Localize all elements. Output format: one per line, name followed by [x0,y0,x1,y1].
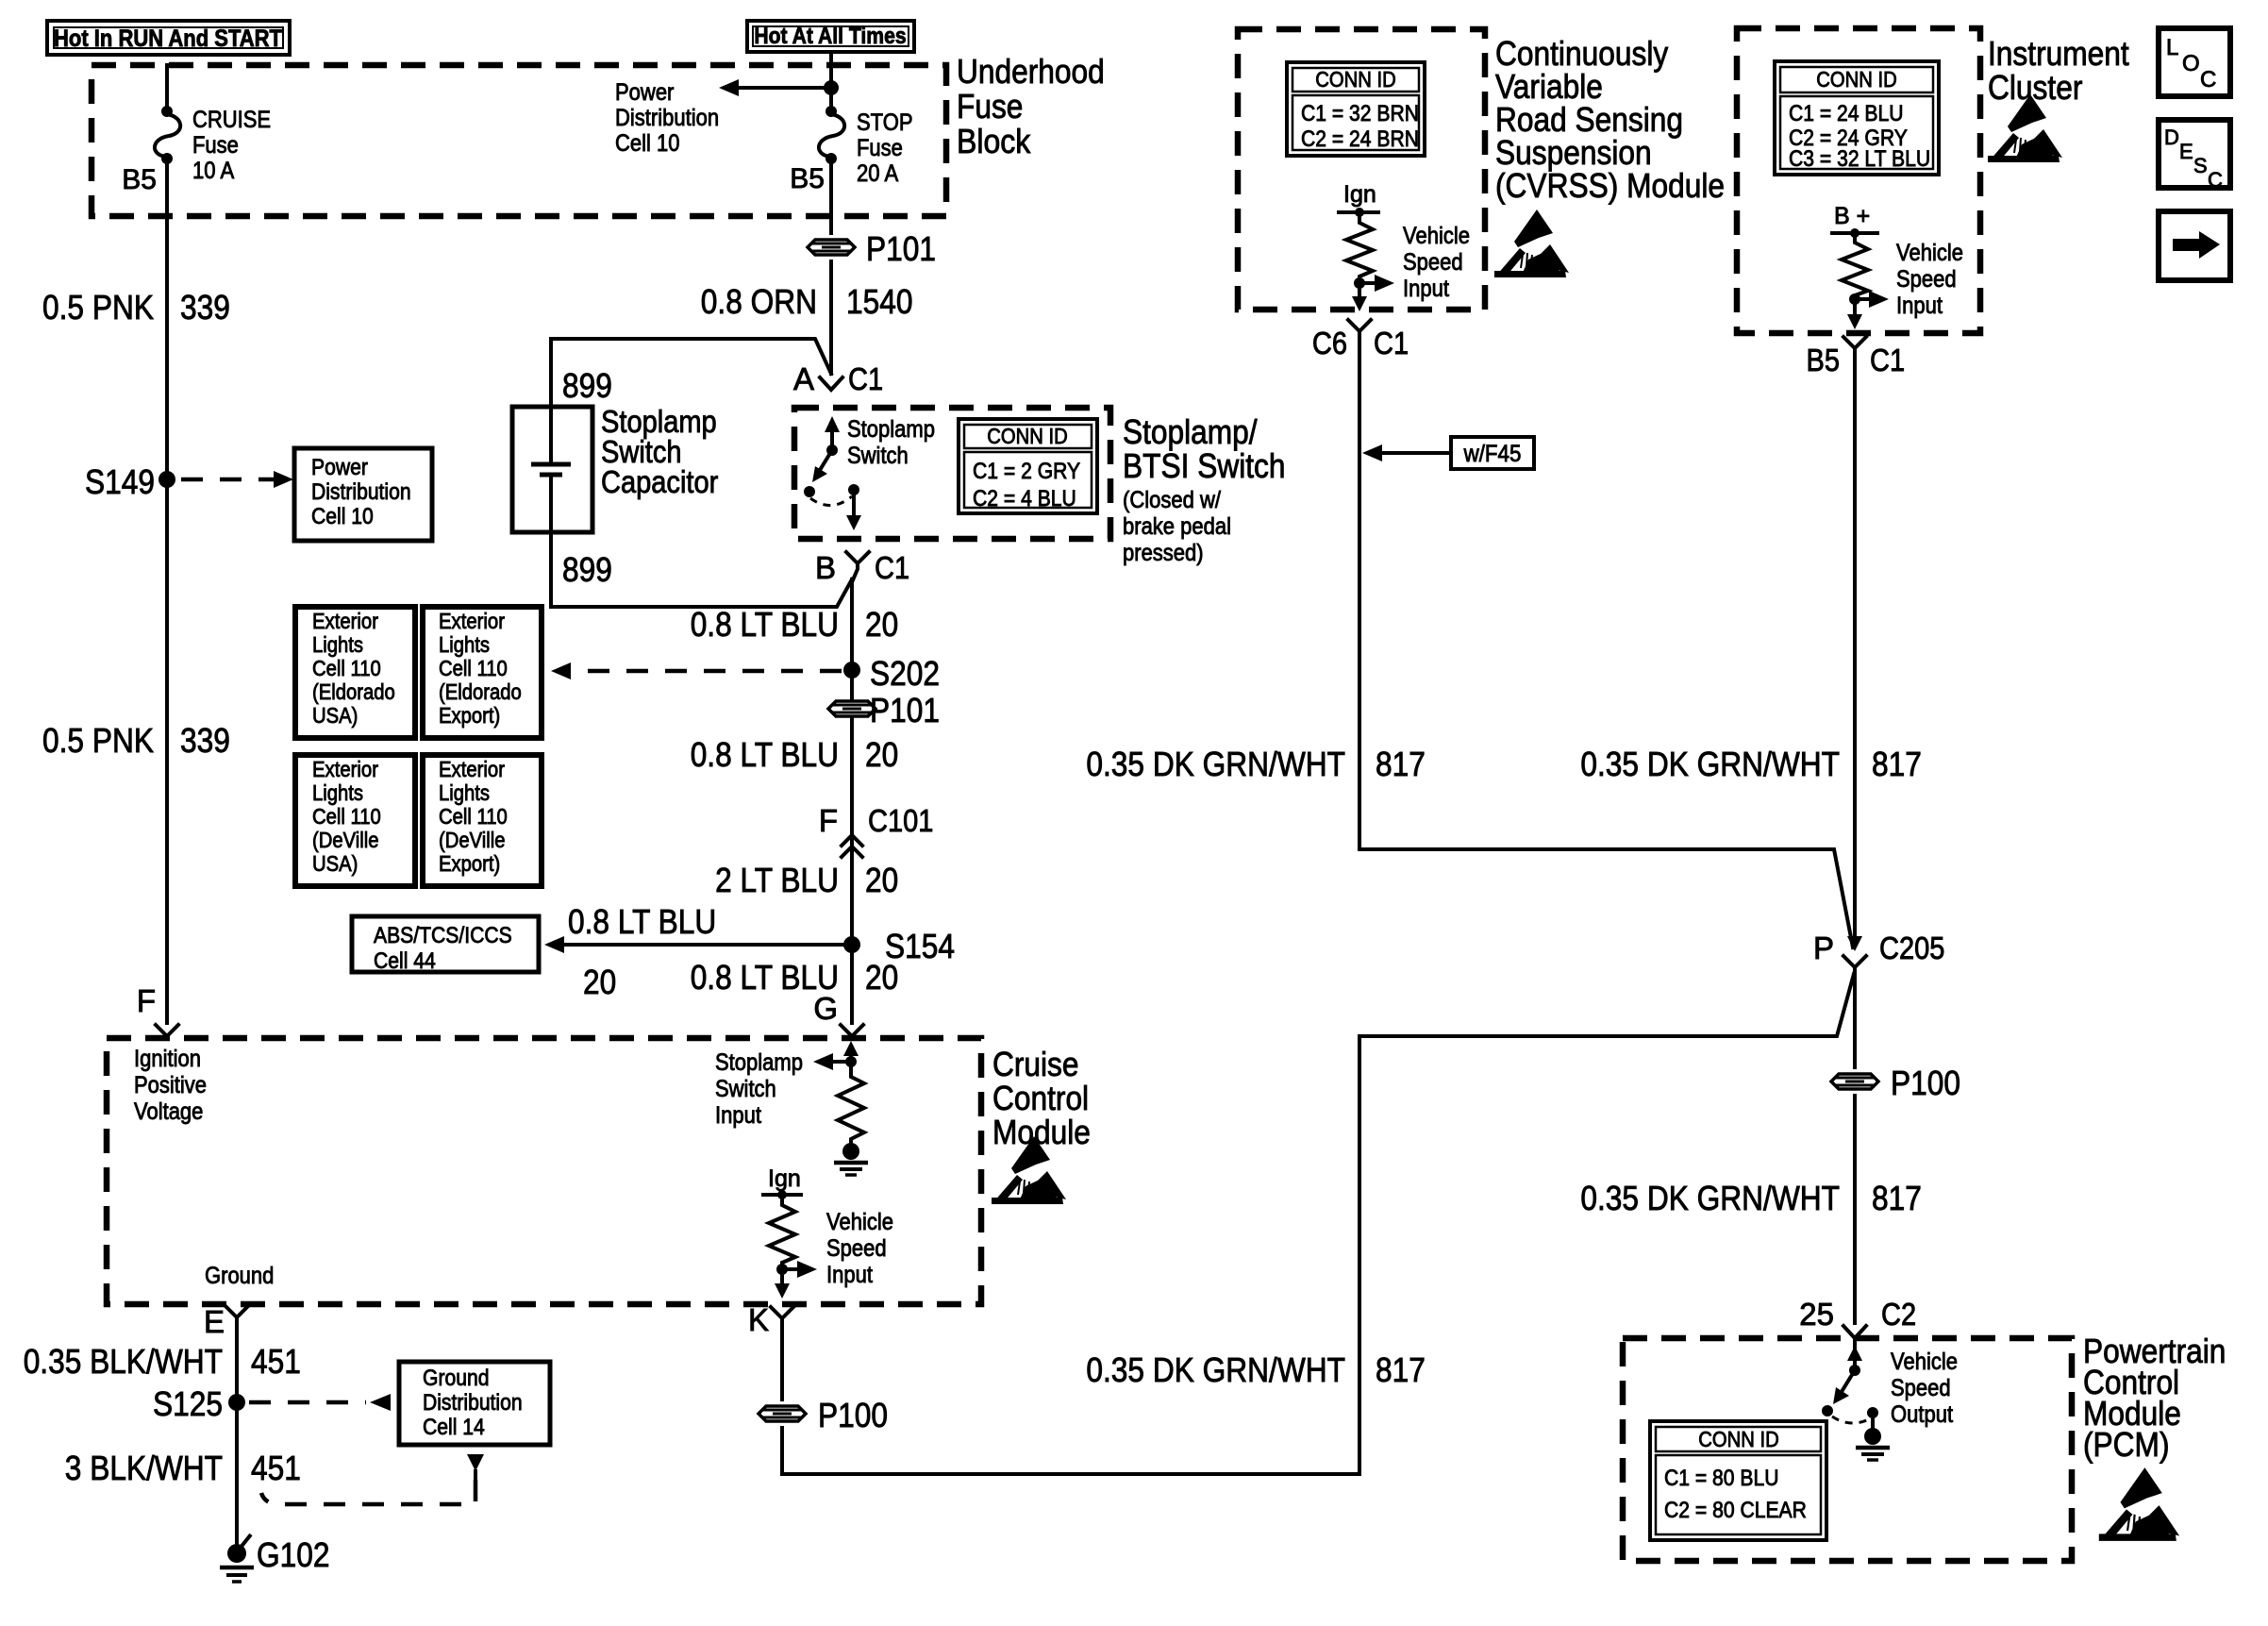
svg-text:CONN ID: CONN ID [1315,67,1396,92]
label Continuously Variable Road Sensing Suspension (CVRSS) Module [1495,34,1725,205]
dashed reference path Ground Distribution to G102 [240,1454,484,1549]
node Ign (CVRSS) [1339,181,1378,217]
wire label 2 LT BLU 20 [715,861,898,899]
dashed reference arrow S202 to Exterior Lights [551,662,842,679]
svg-text:G102: G102 [257,1535,330,1574]
svg-text:Cell 110: Cell 110 [312,804,381,829]
capacitor top wire 899 [551,339,831,374]
vehicle speed output switch (PCM) [1822,1340,1878,1428]
svg-text:P100: P100 [1891,1064,1960,1102]
stoplamp switch contact and travel arc [810,484,861,530]
svg-text:Lights: Lights [312,780,363,805]
stoplamp switch arm (up arrow) [825,416,840,456]
connector P C205 [1813,930,1944,974]
svg-text:Lights: Lights [439,632,490,657]
svg-text:C1 = 24 BLU: C1 = 24 BLU [1789,101,1904,126]
svg-text:CONN ID: CONN ID [1698,1427,1779,1451]
label Vehicle Speed Input (cruise) [826,1209,893,1288]
svg-text:0.5 PNK: 0.5 PNK [42,288,154,327]
svg-text:C101: C101 [868,803,933,838]
svg-text:CRUISE: CRUISE [192,107,271,133]
svg-text:Module: Module [992,1113,1091,1151]
internal ground (PCM) [1856,1428,1890,1460]
capacitor box Stoplamp Switch Capacitor [512,339,592,607]
svg-text:Positive: Positive [134,1072,207,1098]
label STOP Fuse 20 A [857,109,913,187]
svg-text:20: 20 [865,861,898,899]
label Cruise Control Module [992,1045,1091,1151]
connector A C1 into Stoplamp/BTSI Switch [793,361,883,396]
svg-text:Exterior: Exterior [439,609,505,633]
svg-text:0.35 DK GRN/WHT: 0.35 DK GRN/WHT [1580,1179,1840,1217]
wire label 0.35 DK GRN/WHT 817 (bottom run) [1086,1350,1426,1389]
wire label 0.5 PNK 339 (upper) [42,288,230,327]
connector B C1 from Stoplamp/BTSI Switch [815,550,909,585]
svg-text:899: 899 [562,550,612,589]
svg-text:A: A [793,361,814,396]
wire label 0.8 ORN 1540 [701,282,913,321]
label Vehicle Speed Input (CVRSS) [1403,223,1470,302]
svg-text:Stoplamp: Stoplamp [847,416,935,443]
fuse CRUISE 10A [155,106,180,164]
wire label 0.35 BLK/WHT 451 [24,1342,301,1381]
svg-text:pressed): pressed) [1123,540,1204,566]
label Stoplamp Switch Capacitor [601,404,718,499]
reference box Ground Distribution Cell 14 [399,1362,550,1445]
svg-text:Cell 110: Cell 110 [312,656,381,680]
svg-text:C2 = 4 BLU: C2 = 4 BLU [973,486,1076,511]
svg-text:B: B [815,550,836,585]
wire P100 to C205 junction (bottom run) [782,974,1854,1474]
svg-text:Cluster: Cluster [1988,68,2082,107]
vehicle speed input node and arrows (instrument cluster) [1847,291,1889,329]
wire S154 to ABS/TCS/ICCS [544,902,843,1001]
ESD symbol (Instrument Cluster) [1988,94,2062,162]
legend box LOC [2159,28,2230,96]
wire label 0.8 LT BLU 20 (second) [691,735,899,774]
reference box ABS/TCS/ICCS Cell 44 [352,916,539,974]
wire P100 to PCM [1853,1096,1857,1323]
svg-text:F: F [819,803,838,838]
svg-text:B +: B + [1834,203,1870,229]
svg-text:C6: C6 [1312,326,1347,360]
fuse STOP 20A [819,106,844,164]
svg-text:P101: P101 [870,691,940,729]
svg-text:O: O [2182,51,2200,76]
svg-text:Cell 110: Cell 110 [439,656,508,680]
svg-text:817: 817 [1872,745,1922,783]
svg-text:Fuse: Fuse [857,135,903,161]
svg-text:817: 817 [1376,745,1426,783]
connector G into Cruise Control Module [813,991,863,1036]
svg-text:D: D [2164,126,2179,149]
svg-text:C2 = 24 BRN: C2 = 24 BRN [1301,126,1419,152]
svg-text:Power: Power [311,455,368,480]
label Underhood Fuse Block [957,52,1105,160]
CVRSS Module dashed box [1238,29,1485,310]
svg-text:(Eldorado: (Eldorado [312,679,395,704]
wire label 0.8 LT BLU 20 (first) [691,605,899,644]
svg-text:0.8 ORN: 0.8 ORN [701,282,817,321]
svg-text:Power: Power [615,79,674,106]
svg-text:Block: Block [957,122,1031,160]
Exterior Lights box (DeVille Export) [423,755,542,886]
stoplamp switch blade [804,450,832,497]
svg-text:Export): Export) [439,851,500,876]
svg-text:20: 20 [865,605,898,644]
splice S154 [843,927,955,965]
svg-text:USA): USA) [312,851,358,876]
svg-text:Cell 10: Cell 10 [311,504,374,529]
Instrument Cluster dashed box [1737,28,1980,333]
svg-text:Distribution: Distribution [615,105,719,131]
vehicle speed input node and arrows (CVRSS) [1352,275,1394,311]
label Instrument Cluster [1988,34,2129,107]
svg-text:Vehicle: Vehicle [1403,223,1470,249]
svg-text:Instrument: Instrument [1988,34,2129,73]
svg-text:(DeVille: (DeVille [439,828,506,852]
svg-text:Fuse: Fuse [957,87,1023,126]
node B+ (instrument cluster) [1832,203,1877,238]
splice S202 [843,654,940,693]
svg-text:USA): USA) [312,703,358,728]
svg-text:Capacitor: Capacitor [601,464,718,499]
svg-text:C1 = 32 BRN: C1 = 32 BRN [1301,101,1419,126]
svg-text:0.35 DK GRN/WHT: 0.35 DK GRN/WHT [1086,745,1345,783]
label Power Distribution Cell 10 (top) [615,79,719,157]
svg-text:2 LT BLU: 2 LT BLU [715,861,839,899]
svg-text:20: 20 [865,958,898,997]
svg-text:G: G [813,991,838,1026]
svg-text:451: 451 [251,1449,301,1487]
svg-text:E: E [204,1304,225,1339]
Underhood Fuse Block dashed box [92,65,946,216]
svg-text:C1: C1 [1374,326,1409,360]
svg-text:BTSI Switch: BTSI Switch [1123,446,1286,485]
svg-text:Hot At All Times: Hot At All Times [754,24,906,49]
connector 25 C2 into PCM [1799,1297,1916,1338]
svg-text:ABS/TCS/ICCS: ABS/TCS/ICCS [374,923,512,948]
ESD symbol (CVRSS) [1494,210,1569,277]
grommet P101 (top) [808,229,936,268]
resistor (vehicle speed input, CVRSS) [1346,212,1373,280]
arrow to Power Distribution Cell 10 (top) [719,79,831,96]
wire B C1 to S202 [850,579,854,1023]
svg-text:817: 817 [1376,1350,1426,1389]
wire label 0.35 DK GRN/WHT 817 (right wire upper) [1580,745,1922,783]
svg-text:1540: 1540 [846,282,913,321]
resistor (vehicle speed input, instrument cluster) [1842,233,1868,298]
grommet P100 (right) [1831,1064,1960,1102]
svg-text:(Eldorado: (Eldorado [439,679,522,704]
svg-text:Speed: Speed [1403,249,1463,276]
vehicle speed input node and arrows (cruise) [775,1261,817,1299]
connector C6 C1 from CVRSS [1312,320,1409,360]
svg-text:Ign: Ign [1343,181,1376,208]
wire 0.5 PNK 339 (left vertical) [165,159,169,1023]
svg-text:(Closed w/: (Closed w/ [1123,487,1221,513]
label Vehicle Speed Input (instrument cluster) [1896,240,1963,319]
wire label 0.8 LT BLU 20 (third) [691,958,899,997]
dashed reference arrow S125 to Ground Distribution [249,1394,391,1411]
svg-text:E: E [2179,140,2193,163]
ground G102 [220,1535,330,1582]
svg-text:0.35 DK GRN/WHT: 0.35 DK GRN/WHT [1086,1350,1345,1389]
svg-text:brake pedal: brake pedal [1123,513,1231,540]
capacitor bottom wire 899 [551,579,852,607]
grommet P101 (second) [828,691,940,729]
svg-text:Cruise: Cruise [992,1045,1079,1083]
svg-text:Fuse: Fuse [192,132,239,159]
svg-text:10 A: 10 A [192,158,235,184]
svg-text:C: C [2208,168,2223,192]
svg-text:Cell 44: Cell 44 [374,948,436,974]
svg-text:S149: S149 [85,462,155,501]
Stoplamp/BTSI Switch dashed box [794,408,1110,539]
svg-text:Stoplamp: Stoplamp [715,1049,803,1076]
svg-text:w/F45: w/F45 [1463,441,1522,467]
label Stoplamp Switch [847,416,935,469]
svg-text:Input: Input [1403,276,1449,302]
svg-text:0.8 LT BLU: 0.8 LT BLU [691,605,839,644]
svg-text:0.5 PNK: 0.5 PNK [42,721,154,760]
svg-text:Lights: Lights [439,780,490,805]
svg-text:P: P [1813,930,1834,965]
svg-text:Ground: Ground [205,1263,274,1289]
svg-text:20: 20 [583,963,616,1001]
ESD symbol (PCM) [2099,1467,2179,1541]
svg-text:0.35 DK GRN/WHT: 0.35 DK GRN/WHT [1580,745,1840,783]
wire C205 to P100 [1853,970,1857,1067]
connector E from Cruise Control Module [204,1304,248,1339]
svg-text:Vehicle: Vehicle [1896,240,1963,266]
CONN ID table (PCM) [1650,1421,1826,1540]
svg-text:Output: Output [1891,1401,1953,1428]
legend box DESC [2159,120,2230,192]
svg-text:STOP: STOP [857,109,913,136]
connector B5 C1 from Instrument Cluster [1807,337,1906,377]
svg-text:Input: Input [715,1102,761,1129]
ESD symbol (Cruise Control Module) [992,1136,1066,1204]
svg-text:Stoplamp/: Stoplamp/ [1123,412,1258,451]
svg-text:Ground: Ground [423,1366,490,1391]
svg-text:Ignition: Ignition [134,1046,201,1072]
svg-text:C1: C1 [848,361,883,396]
svg-text:C1: C1 [875,550,909,585]
svg-text:451: 451 [251,1342,301,1381]
svg-text:Distribution: Distribution [423,1390,523,1416]
svg-text:Export): Export) [439,703,500,728]
wire 0.35 BLK/WHT 451 [235,1321,239,1553]
svg-text:S125: S125 [153,1384,223,1423]
svg-text:Speed: Speed [826,1235,887,1262]
connector F C101 inline [819,803,934,857]
wire from Hot In RUN to CRUISE fuse [165,65,169,111]
svg-text:CONN ID: CONN ID [1816,67,1897,92]
svg-text:Vehicle: Vehicle [826,1209,893,1235]
svg-text:Lights: Lights [312,632,363,657]
connector F into Cruise Control Module [137,983,178,1036]
dashed reference arrow S149 to Power Distribution [181,471,293,488]
svg-text:C2: C2 [1881,1297,1916,1332]
svg-text:0.8 LT BLU: 0.8 LT BLU [568,902,716,941]
svg-text:339: 339 [180,721,230,760]
svg-text:899: 899 [562,366,612,405]
svg-text:817: 817 [1872,1179,1922,1217]
label Stoplamp/BTSI Switch [1123,412,1286,566]
svg-text:Switch: Switch [715,1076,776,1102]
svg-text:20: 20 [865,735,898,774]
svg-text:Speed: Speed [1896,266,1957,293]
Exterior Lights box (DeVille USA) [295,755,415,886]
reference box w/F45 [1362,437,1534,469]
svg-text:P100: P100 [818,1396,888,1434]
svg-text:3 BLK/WHT: 3 BLK/WHT [65,1449,223,1487]
svg-text:25: 25 [1799,1297,1834,1332]
svg-text:B5: B5 [790,163,825,194]
svg-text:Switch: Switch [847,443,909,469]
svg-text:C1: C1 [1870,343,1905,377]
splice S149 [85,462,175,501]
grommet P100 (cruise) [759,1396,888,1434]
svg-text:0.35 BLK/WHT: 0.35 BLK/WHT [24,1342,223,1381]
label box "Hot At All Times" [747,21,914,52]
wire label 0.35 DK GRN/WHT 817 (right wire lower) [1580,1179,1922,1217]
svg-text:C1 = 2 GRY: C1 = 2 GRY [973,459,1080,484]
svg-text:339: 339 [180,288,230,327]
svg-text:Exterior: Exterior [439,757,505,781]
svg-text:Exterior: Exterior [312,757,378,781]
label Stoplamp Switch Input [715,1049,803,1129]
reference box Power Distribution Cell 10 (left) [294,448,432,541]
wire K to P100 [780,1321,784,1400]
Exterior Lights box (Eldorado Export) [423,607,542,738]
svg-text:Input: Input [1896,293,1943,319]
Powertrain Control Module dashed box [1623,1338,2072,1561]
label CRUISE Fuse 10 A [192,107,271,184]
wire 0.8 ORN 1540 [829,261,833,374]
svg-text:Voltage: Voltage [134,1098,203,1125]
svg-text:Cell 110: Cell 110 [439,804,508,829]
CONN ID table (Instrument Cluster) [1775,61,1939,175]
stoplamp switch input pin arrow [813,1041,859,1070]
svg-text:S: S [2193,154,2208,177]
svg-text:C: C [2200,67,2216,92]
internal ground (cruise module) [834,1143,868,1175]
svg-text:Speed: Speed [1891,1375,1951,1401]
svg-text:C1 = 80 BLU: C1 = 80 BLU [1664,1466,1779,1491]
svg-text:C3 = 32 LT BLU: C3 = 32 LT BLU [1789,146,1930,172]
svg-text:S202: S202 [870,654,940,693]
connector K from Cruise Control Module [748,1302,793,1337]
svg-text:L: L [2166,35,2178,60]
label Vehicle Speed Output [1891,1349,1958,1428]
svg-text:Cell 14: Cell 14 [423,1415,485,1440]
label Powertrain Control Module (PCM) [2083,1332,2226,1464]
wire from Hot At All Times to STOP fuse [829,52,833,111]
svg-text:(CVRSS) Module: (CVRSS) Module [1495,166,1725,205]
svg-text:K: K [748,1302,769,1337]
node Ign (cruise module) [763,1165,801,1199]
svg-text:B5: B5 [122,164,157,195]
svg-text:Input: Input [826,1262,873,1288]
node junction dot at power distribution tap [824,80,839,95]
svg-text:CONN ID: CONN ID [987,424,1068,448]
CONN ID table (CVRSS) [1287,62,1425,156]
splice S125 [153,1384,245,1423]
svg-text:20 A: 20 A [857,160,899,187]
wire label 3 BLK/WHT 451 [65,1449,301,1487]
svg-text:C205: C205 [1879,930,1944,965]
svg-text:Distribution: Distribution [311,479,411,505]
svg-text:(DeVille: (DeVille [312,828,379,852]
svg-text:P101: P101 [866,229,936,268]
svg-text:Control: Control [992,1079,1089,1117]
label box "Hot In RUN And START" [47,21,290,55]
svg-text:Vehicle: Vehicle [1891,1349,1958,1375]
svg-text:Ign: Ign [768,1165,801,1192]
svg-text:Exterior: Exterior [312,609,378,633]
svg-text:Underhood: Underhood [957,52,1105,91]
svg-text:F: F [137,983,156,1018]
resistor (vehicle speed input, cruise) [769,1195,795,1268]
wire CVRSS C1 to C205 [1359,334,1853,947]
wire label 0.35 DK GRN/WHT 817 (left wire) [1086,745,1426,783]
label Ignition Positive Voltage [134,1046,207,1125]
Cruise Control Module dashed box [107,1038,981,1304]
svg-text:Cell 10: Cell 10 [615,130,680,157]
Exterior Lights box (Eldorado USA) [295,607,415,738]
wire STOP fuse to P101 [829,159,833,233]
svg-text:B5: B5 [1807,343,1841,377]
svg-text:C2 = 80 CLEAR: C2 = 80 CLEAR [1664,1498,1807,1523]
svg-text:Hot In RUN And START: Hot In RUN And START [54,25,282,52]
wire Instrument Cluster C1 to C205 [1853,351,1857,944]
svg-text:(PCM): (PCM) [2083,1425,2170,1464]
CONN ID table (Stoplamp/BTSI) [959,419,1097,513]
resistor (stoplamp switch input pull-up) [838,1062,864,1143]
wire label 0.5 PNK 339 (lower) [42,721,230,760]
svg-text:0.8 LT BLU: 0.8 LT BLU [691,735,839,774]
legend box arrow [2159,211,2230,280]
